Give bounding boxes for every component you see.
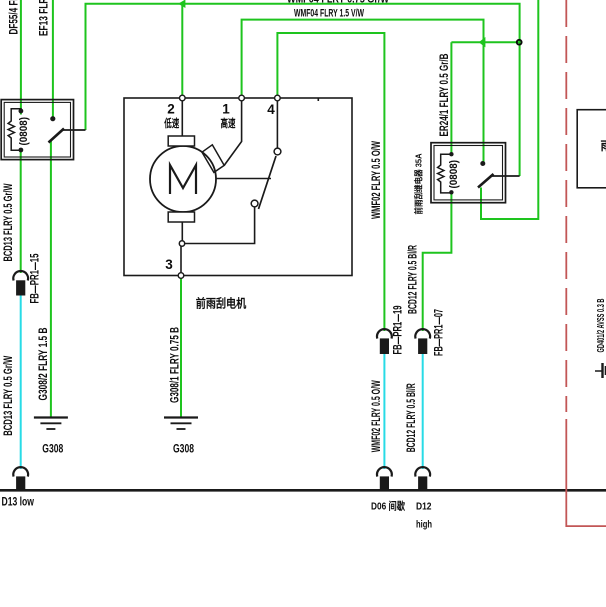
svg-text:WMF02 FLRY 0.5 O/W: WMF02 FLRY 0.5 O/W (371, 141, 383, 219)
svg-text:EF13 FLRY 1.5 B/W: EF13 FLRY 1.5 B/W (38, 0, 50, 36)
svg-text:G308/2 FLRY 1.5 B: G308/2 FLRY 1.5 B (38, 328, 50, 401)
svg-text:WMF04 FLRY 1.5 V/W: WMF04 FLRY 1.5 V/W (294, 8, 364, 20)
svg-text:2: 2 (167, 102, 175, 117)
svg-text:GD401/2 AVSS 0.3 B: GD401/2 AVSS 0.3 B (596, 299, 606, 353)
svg-text:BCD13 FLRY 0.5 Gr/W: BCD13 FLRY 0.5 Gr/W (3, 356, 15, 436)
svg-text:前雨刮继电器 35A: 前雨刮继电器 35A (412, 154, 423, 215)
svg-text:前雨刮电机: 前雨刮电机 (196, 295, 247, 310)
svg-text:(0808): (0808) (18, 117, 30, 146)
svg-text:FB—PR1—15: FB—PR1—15 (30, 253, 42, 303)
svg-text:3: 3 (165, 257, 173, 272)
svg-text:BCD12 FLRY 0.5 Bl/R: BCD12 FLRY 0.5 Bl/R (407, 245, 419, 314)
svg-text:低速: 低速 (164, 116, 180, 130)
svg-text:D13 low: D13 low (2, 494, 35, 508)
svg-text:FB—PR1—19: FB—PR1—19 (393, 306, 405, 355)
svg-text:ER24/1 FLRY 0.5 Gr/B: ER24/1 FLRY 0.5 Gr/B (439, 53, 451, 136)
svg-text:雨: 雨 (601, 139, 606, 153)
svg-text:BCD13 FLRY 0.5 Gr/W: BCD13 FLRY 0.5 Gr/W (3, 183, 15, 261)
svg-text:FB—PR1—07: FB—PR1—07 (434, 309, 446, 356)
svg-text:WMF04 FLRY 0.75 Gr/W: WMF04 FLRY 0.75 Gr/W (287, 0, 390, 6)
svg-text:1: 1 (222, 102, 230, 117)
svg-text:WMF02 FLRY 0.5 O/W: WMF02 FLRY 0.5 O/W (371, 380, 383, 452)
svg-text:(0808): (0808) (448, 160, 460, 189)
svg-text:DF55/4 FLRY 0.75 B: DF55/4 FLRY 0.75 B (8, 0, 20, 34)
svg-text:D12: D12 (416, 501, 432, 513)
svg-text:D06 间歇: D06 间歇 (371, 499, 405, 512)
svg-text:G308: G308 (173, 441, 194, 455)
svg-text:高速: 高速 (221, 116, 236, 130)
svg-text:4: 4 (267, 102, 275, 117)
svg-text:G308: G308 (42, 441, 63, 455)
svg-text:BCD12 FLRY 0.5 Bl/R: BCD12 FLRY 0.5 Bl/R (406, 383, 418, 452)
svg-text:G308/1 FLRY 0.75 B: G308/1 FLRY 0.75 B (169, 327, 181, 403)
svg-text:high: high (416, 519, 432, 531)
